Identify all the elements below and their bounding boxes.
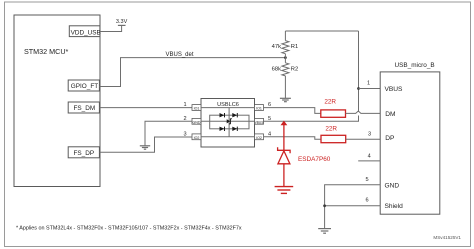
svg-text:68k: 68k	[272, 66, 281, 72]
svg-text:DM: DM	[385, 111, 395, 118]
wire VBUS top: R1 top to right riser	[285, 30, 358, 32]
pin GPIO_FT	[68, 80, 99, 91]
svg-text:R2: R2	[291, 66, 298, 72]
svg-text:IO1: IO1	[256, 107, 262, 111]
IC USBLC6 box	[201, 99, 255, 148]
diode D4 bottom-right	[232, 127, 237, 131]
svg-text:5: 5	[365, 177, 368, 183]
svg-text:GPIO_FT: GPIO_FT	[71, 83, 98, 90]
svg-text:GND: GND	[193, 120, 201, 124]
wire GND pin to riser	[325, 185, 381, 229]
zener diode center	[227, 119, 232, 124]
resistor 22R (DP)	[321, 125, 346, 142]
svg-text:USB_micro_B: USB_micro_B	[395, 62, 435, 69]
wire VBUS riser down to connector lane	[358, 31, 360, 112]
pin FS_DM	[68, 102, 99, 113]
svg-text:47k: 47k	[272, 44, 281, 50]
svg-text:FS_DM: FS_DM	[74, 105, 96, 112]
svg-text:DP: DP	[385, 135, 395, 142]
svg-text:22R: 22R	[324, 98, 336, 105]
pin IO2 left	[192, 134, 201, 140]
MCU STM32 box	[14, 15, 100, 187]
svg-text:1: 1	[183, 102, 186, 108]
wire USBLC6 internal IO2 rail	[201, 136, 255, 138]
resistor R1	[282, 31, 289, 58]
svg-text:IO2: IO2	[256, 136, 262, 140]
resistor R2	[282, 58, 289, 98]
ground for USBLC6 GND	[140, 146, 150, 149]
ground for ESDA7P60 (red)	[275, 187, 294, 194]
svg-text:5: 5	[268, 116, 271, 122]
node junction R1/R2/VBUS_det	[284, 56, 287, 59]
connector USB_micro_B box	[380, 62, 440, 214]
wire pin 4 stub	[358, 160, 380, 162]
wire VDD_USB to 3.3V	[100, 25, 122, 31]
svg-text:* Applies on STM32L4x - STM32F: * Applies on STM32L4x - STM32F0x - STM32…	[16, 226, 242, 232]
svg-text:Shield: Shield	[385, 203, 404, 210]
svg-text:VBUS_det: VBUS_det	[166, 52, 194, 58]
svg-text:IO2: IO2	[194, 136, 200, 140]
svg-text:GND: GND	[385, 182, 400, 189]
wire USBLC6 internal bridge rectangle	[210, 115, 249, 129]
svg-text:3.3V: 3.3V	[116, 19, 128, 25]
wire USBLC6 internal IO1 rail	[201, 107, 255, 109]
wire Shield pin to riser	[325, 205, 381, 207]
wire VBUS riser below DM hop to pin5 lane	[264, 116, 359, 122]
pin GND left	[192, 118, 201, 124]
wire FS_DP to USBLC6 pin 3	[100, 137, 193, 152]
wire USBLC6 pin6 to 22R (DM lane)	[264, 108, 321, 114]
svg-text:1: 1	[367, 81, 370, 87]
wire USBLC6 internal GND-VBUS rail	[201, 120, 255, 122]
svg-text:R1: R1	[291, 44, 298, 50]
diode D3 bottom-left	[220, 127, 225, 131]
pin FS_DP	[68, 147, 99, 158]
power 3.3V	[116, 19, 128, 26]
wire VBUS into connector pin 1	[359, 88, 381, 90]
svg-text:IO1: IO1	[194, 107, 200, 111]
svg-text:ESDA7P60: ESDA7P60	[298, 156, 331, 163]
pin VDD_USB	[69, 26, 100, 37]
diode D1 top-left	[220, 113, 225, 117]
svg-text:6: 6	[365, 198, 368, 204]
pin IO1 left	[192, 105, 201, 111]
svg-text:VBUS: VBUS	[385, 86, 404, 93]
wire FS_DM to USBLC6 pin 1	[100, 107, 193, 109]
svg-text:VBUS: VBUS	[255, 120, 264, 124]
wire USBLC6 internal center vertical	[228, 108, 230, 137]
pin IO1 right	[255, 105, 264, 111]
diode D2 top-right	[232, 113, 237, 117]
TVS diode ESDA7P60	[278, 121, 291, 187]
svg-text:3: 3	[368, 132, 371, 138]
svg-text:4: 4	[368, 153, 371, 159]
resistor 22R (DM)	[321, 98, 346, 117]
ground below R2	[280, 98, 291, 101]
pin IO2 right	[255, 134, 264, 140]
svg-text:FS_DP: FS_DP	[74, 150, 95, 157]
wire USBLC6 pin4 to 22R (DP lane)	[264, 137, 322, 139]
wire GND pin2 of USBLC6 to ground	[145, 121, 192, 145]
node junction GND/Shield	[323, 204, 326, 207]
ground for connector GND/Shield	[318, 229, 331, 234]
pin VBUS right	[255, 118, 264, 124]
wire 22R to DM pin with hop over VBUS riser	[346, 111, 381, 113]
wire 22R to DP pin	[346, 138, 381, 140]
node junction VBUS	[357, 87, 360, 90]
wire GPIO_FT / net VBUS_det	[100, 58, 286, 87]
svg-text:VDD_USB: VDD_USB	[71, 30, 101, 37]
svg-text:22R: 22R	[325, 125, 337, 132]
svg-text:STM32 MCU*: STM32 MCU*	[24, 47, 69, 56]
svg-text:MSv41525V1: MSv41525V1	[433, 235, 461, 240]
